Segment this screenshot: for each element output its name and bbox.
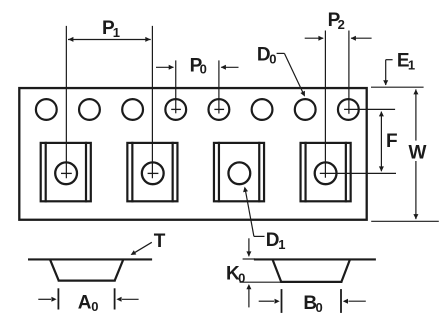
svg-text:0: 0: [316, 300, 323, 315]
extension line bottom right: [371, 220, 439, 222]
dimension A0: [38, 288, 138, 309]
svg-text:0: 0: [269, 51, 276, 66]
section A pocket profile: [50, 259, 123, 280]
pocket 2: [127, 142, 177, 203]
label P0: [190, 56, 207, 77]
pocket 1: [41, 142, 91, 203]
sprocket hole 6: [252, 99, 273, 120]
sprocket hole 2: [79, 99, 100, 120]
dimension E1: [383, 60, 392, 86]
label A0: [78, 292, 99, 314]
pocket 3: [214, 142, 264, 203]
dimension B0: [259, 289, 366, 313]
svg-text:1: 1: [278, 237, 285, 252]
svg-text:A: A: [78, 292, 92, 313]
extension line sprocket center: [344, 108, 395, 110]
svg-text:0: 0: [91, 299, 98, 314]
label K0: [226, 264, 245, 286]
svg-text:0: 0: [200, 61, 207, 76]
sprocket hole 1: [36, 99, 57, 120]
sprocket hole 4: [165, 99, 186, 120]
tape outline: [19, 88, 366, 220]
svg-text:0: 0: [238, 270, 245, 285]
dimension K0: [240, 238, 281, 307]
label P2: [328, 10, 345, 32]
sprocket hole 8: [338, 99, 359, 120]
label D0: [257, 45, 277, 67]
section B top surface line: [243, 258, 376, 260]
label E1: [397, 51, 415, 73]
dimension P0: [156, 60, 239, 113]
label W: [409, 143, 427, 164]
svg-text:T: T: [154, 231, 166, 252]
dimension P2: [305, 31, 372, 178]
dimension P1: [66, 26, 152, 178]
svg-text:W: W: [409, 143, 427, 164]
svg-text:2: 2: [338, 17, 345, 32]
dimension D1 leader: [243, 187, 264, 237]
extension line pocket center: [320, 172, 396, 174]
sprocket hole 3: [122, 99, 143, 120]
dimension W: [413, 89, 418, 219]
dimension D0 leader: [277, 53, 305, 96]
pocket 4: [301, 142, 351, 203]
label F: [386, 131, 398, 152]
label P1: [102, 18, 120, 40]
svg-text:1: 1: [408, 57, 415, 72]
sprocket hole 7: [295, 99, 316, 120]
label D1: [266, 230, 286, 252]
sprocket hole 5: [209, 99, 230, 120]
label B0: [303, 293, 322, 315]
label T: [154, 231, 166, 252]
dimension F: [379, 111, 384, 171]
svg-text:1: 1: [113, 25, 120, 40]
section B pocket profile: [273, 259, 351, 282]
section A top surface line: [28, 258, 152, 260]
svg-text:F: F: [386, 131, 398, 152]
dimension T leader: [131, 242, 152, 255]
extension line top right: [371, 86, 424, 88]
